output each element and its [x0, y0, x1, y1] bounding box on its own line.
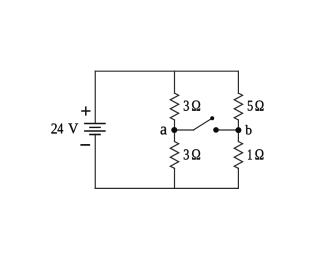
wire left rail lower — [94, 135, 96, 189]
battery B1 plate short — [89, 126, 101, 128]
wire middle branch bottom — [174, 168, 176, 188]
label R2 digit 3 — [184, 149, 189, 159]
label node b — [245, 125, 251, 135]
wire right branch top — [237, 71, 239, 93]
battery B1 plate long — [84, 130, 106, 132]
label R1 omega — [192, 101, 200, 111]
wire right branch bottom — [237, 168, 239, 188]
resistor R4 1 ohm lower right — [234, 142, 242, 169]
switch S1 blade — [193, 118, 211, 130]
wire node a to switch pivot — [175, 129, 194, 131]
label 24V digit 2 — [51, 124, 56, 134]
wire switch contact to node b — [216, 129, 238, 131]
switch fixed contact dot — [213, 127, 219, 133]
resistor R3 5 ohm upper right — [234, 93, 242, 120]
label R3 omega — [256, 101, 264, 111]
label 24V digit 4 — [58, 124, 64, 134]
wire top rail — [95, 70, 238, 72]
label 24V letter V — [68, 124, 78, 134]
label R3 digit 5 — [248, 101, 253, 111]
wire node b down — [237, 130, 239, 142]
label R1 digit 3 — [184, 101, 189, 111]
plus sign — [81, 106, 90, 115]
battery B1 plate long top — [84, 123, 106, 125]
label R2 omega — [192, 149, 200, 159]
wire node a down — [174, 130, 176, 142]
node a junction dot — [171, 127, 177, 133]
label R4 omega — [255, 149, 263, 159]
wire left rail upper — [94, 71, 96, 123]
resistor R1 3 ohm upper middle — [170, 93, 178, 120]
label node a — [161, 127, 167, 135]
label R4 digit 1 — [248, 150, 252, 160]
battery B1 plate short bottom — [89, 134, 101, 136]
minus sign — [80, 144, 90, 146]
wire bottom rail — [95, 187, 238, 189]
switch blade tip dot — [210, 116, 214, 120]
resistor R2 3 ohm lower middle — [170, 142, 178, 169]
wire middle branch top — [174, 71, 176, 93]
node b junction dot — [235, 127, 241, 133]
wire middle resistor to node a — [174, 120, 176, 130]
wire right resistor to node b — [237, 120, 239, 130]
